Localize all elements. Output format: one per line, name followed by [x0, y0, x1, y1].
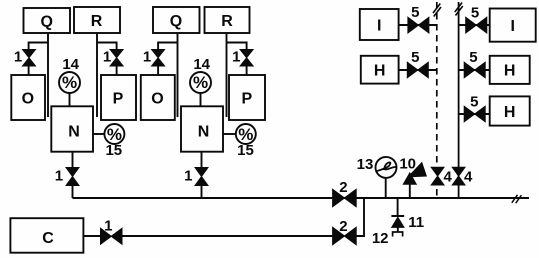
svg-text:5: 5 — [471, 4, 479, 21]
svg-text:P: P — [113, 90, 124, 107]
svg-text:5: 5 — [470, 93, 478, 110]
svg-text:15: 15 — [105, 142, 122, 159]
svg-text:R: R — [91, 13, 103, 30]
wire: lower line — [122, 235, 333, 237]
valve 1 (after C) — [101, 228, 123, 244]
wire: lower line riser to main line — [356, 198, 364, 236]
box H (right, row 2) — [490, 56, 530, 84]
svg-text:Q: Q — [40, 14, 52, 31]
svg-text:4: 4 — [444, 168, 453, 185]
wire: circle 14 to N — [200, 93, 202, 106]
svg-text:1: 1 — [103, 48, 111, 65]
box O — [141, 75, 175, 120]
svg-text:10: 10 — [399, 155, 416, 172]
svg-text:15: 15 — [237, 142, 254, 159]
svg-text:P: P — [241, 90, 252, 107]
riser (solid) — [458, 2, 460, 198]
wire: R stem down — [96, 33, 98, 117]
svg-text:12: 12 — [372, 230, 389, 247]
svg-text:1: 1 — [143, 48, 151, 65]
svg-text:5: 5 — [469, 49, 477, 66]
wire: valve to P — [116, 66, 118, 75]
valve 1 (above O) — [23, 50, 36, 67]
box H (right, row 3) — [490, 96, 530, 125]
svg-text:H: H — [504, 104, 516, 121]
valve 5 (row 3 right) — [464, 106, 485, 122]
wire: upper main line — [73, 197, 530, 199]
safety valve 10 (angle valve) — [403, 173, 416, 184]
box N — [181, 106, 223, 151]
box I (right) — [490, 9, 536, 42]
wire: N bottom stem — [201, 152, 203, 168]
svg-text:N: N — [198, 124, 210, 141]
box O — [11, 75, 45, 120]
pipe break (top of solid riser) — [455, 3, 463, 16]
svg-text:%: % — [62, 73, 77, 92]
svg-text:R: R — [221, 13, 233, 30]
wire: stem of safety valve 10 — [409, 184, 411, 199]
wire: riser to H — [459, 113, 490, 115]
wire: Q stem down — [47, 33, 49, 117]
box I (left) — [360, 9, 399, 40]
wire: valve to O — [157, 66, 159, 75]
svg-text:5: 5 — [411, 4, 419, 21]
wire: N to circle 15 — [93, 133, 104, 135]
riser (dashed) — [436, 2, 438, 198]
valve 1 (below N) — [195, 168, 208, 186]
svg-text:I: I — [510, 18, 514, 35]
svg-text:1: 1 — [14, 48, 22, 65]
box Q — [153, 7, 200, 33]
svg-text:2: 2 — [339, 218, 347, 235]
instrument circle 15 (%) — [236, 124, 256, 144]
wire: stem of check valve 11 — [397, 198, 399, 216]
wire: branch to valve 1 left — [158, 43, 177, 50]
box P — [101, 75, 136, 120]
valve 1 (above P) — [240, 50, 253, 67]
valve 5 (row 2 right) — [464, 62, 485, 78]
box C — [10, 218, 83, 253]
wire: R stem down — [226, 33, 228, 117]
box R — [205, 7, 250, 33]
svg-text:Q: Q — [170, 13, 182, 30]
valve 2 (lower) — [333, 227, 357, 244]
valve 5 (row 2 left) — [407, 62, 428, 78]
pipe break (top of dashed riser) — [433, 4, 441, 17]
instrument circle 14 (%) — [190, 72, 211, 93]
svg-text:1: 1 — [55, 167, 63, 184]
wire: H to riser — [399, 69, 437, 71]
wire: check valve to drain — [397, 227, 399, 231]
svg-text:1: 1 — [104, 217, 112, 234]
svg-text:13: 13 — [357, 156, 374, 173]
svg-text:C: C — [42, 230, 54, 247]
wire: valve to P — [246, 66, 248, 75]
valve 1 (below N) — [66, 168, 79, 186]
wire: branch to valve 1 left — [29, 43, 48, 50]
valve 5 (row 1 right) — [466, 17, 487, 33]
wire: Q stem down — [177, 33, 179, 117]
box H (left) — [361, 56, 399, 84]
wire: valve to O — [28, 66, 30, 75]
svg-text:2: 2 — [339, 179, 347, 196]
wire: valve to main line — [201, 186, 203, 199]
gauge 13 (circle with wave) — [376, 157, 397, 178]
box P — [229, 75, 265, 120]
box R — [74, 7, 120, 33]
svg-text:1: 1 — [232, 48, 240, 65]
wire: riser to H — [459, 69, 490, 71]
valve 5 (row 1 left) — [408, 17, 429, 33]
svg-text:N: N — [68, 124, 80, 141]
svg-text:H: H — [374, 63, 386, 80]
wire: I to riser — [399, 24, 437, 26]
svg-text:1: 1 — [184, 167, 192, 184]
svg-text:4: 4 — [464, 168, 473, 185]
wire: circle 14 to N — [69, 93, 71, 106]
svg-text:I: I — [377, 17, 381, 34]
svg-text:O: O — [22, 90, 34, 107]
valve 1 (above O) — [152, 50, 165, 67]
wire: riser to I — [459, 24, 490, 26]
box Q — [24, 8, 71, 33]
svg-text:5: 5 — [411, 49, 419, 66]
svg-text:14: 14 — [193, 56, 210, 73]
svg-text:14: 14 — [62, 56, 79, 73]
wire: C to valve 1 — [83, 235, 100, 237]
wire: N to circle 15 — [223, 133, 236, 135]
valve 4 (on dashed riser) — [431, 167, 444, 185]
valve 4 (on solid riser) — [452, 167, 465, 185]
pipe break (right end of main line) — [512, 195, 522, 203]
valve 1 (above P) — [110, 50, 123, 67]
valve 2 (upper) — [333, 189, 357, 206]
svg-text:H: H — [504, 63, 516, 80]
svg-text:%: % — [193, 73, 208, 92]
wire: branch to valve 1 right — [97, 43, 117, 50]
wire: branch to valve 1 right — [227, 43, 247, 50]
instrument circle 15 (%) — [104, 124, 124, 144]
wire: N bottom stem — [72, 152, 74, 168]
check valve 11 (triangle with seat bar) — [391, 215, 404, 217]
box N — [51, 106, 93, 151]
instrument circle 14 (%) — [59, 72, 80, 93]
svg-text:O: O — [151, 90, 163, 107]
drain funnel 12 — [393, 232, 403, 237]
wire: valve to main line — [72, 186, 74, 199]
wire: stem of gauge 13 — [385, 178, 387, 199]
svg-text:11: 11 — [408, 214, 424, 231]
